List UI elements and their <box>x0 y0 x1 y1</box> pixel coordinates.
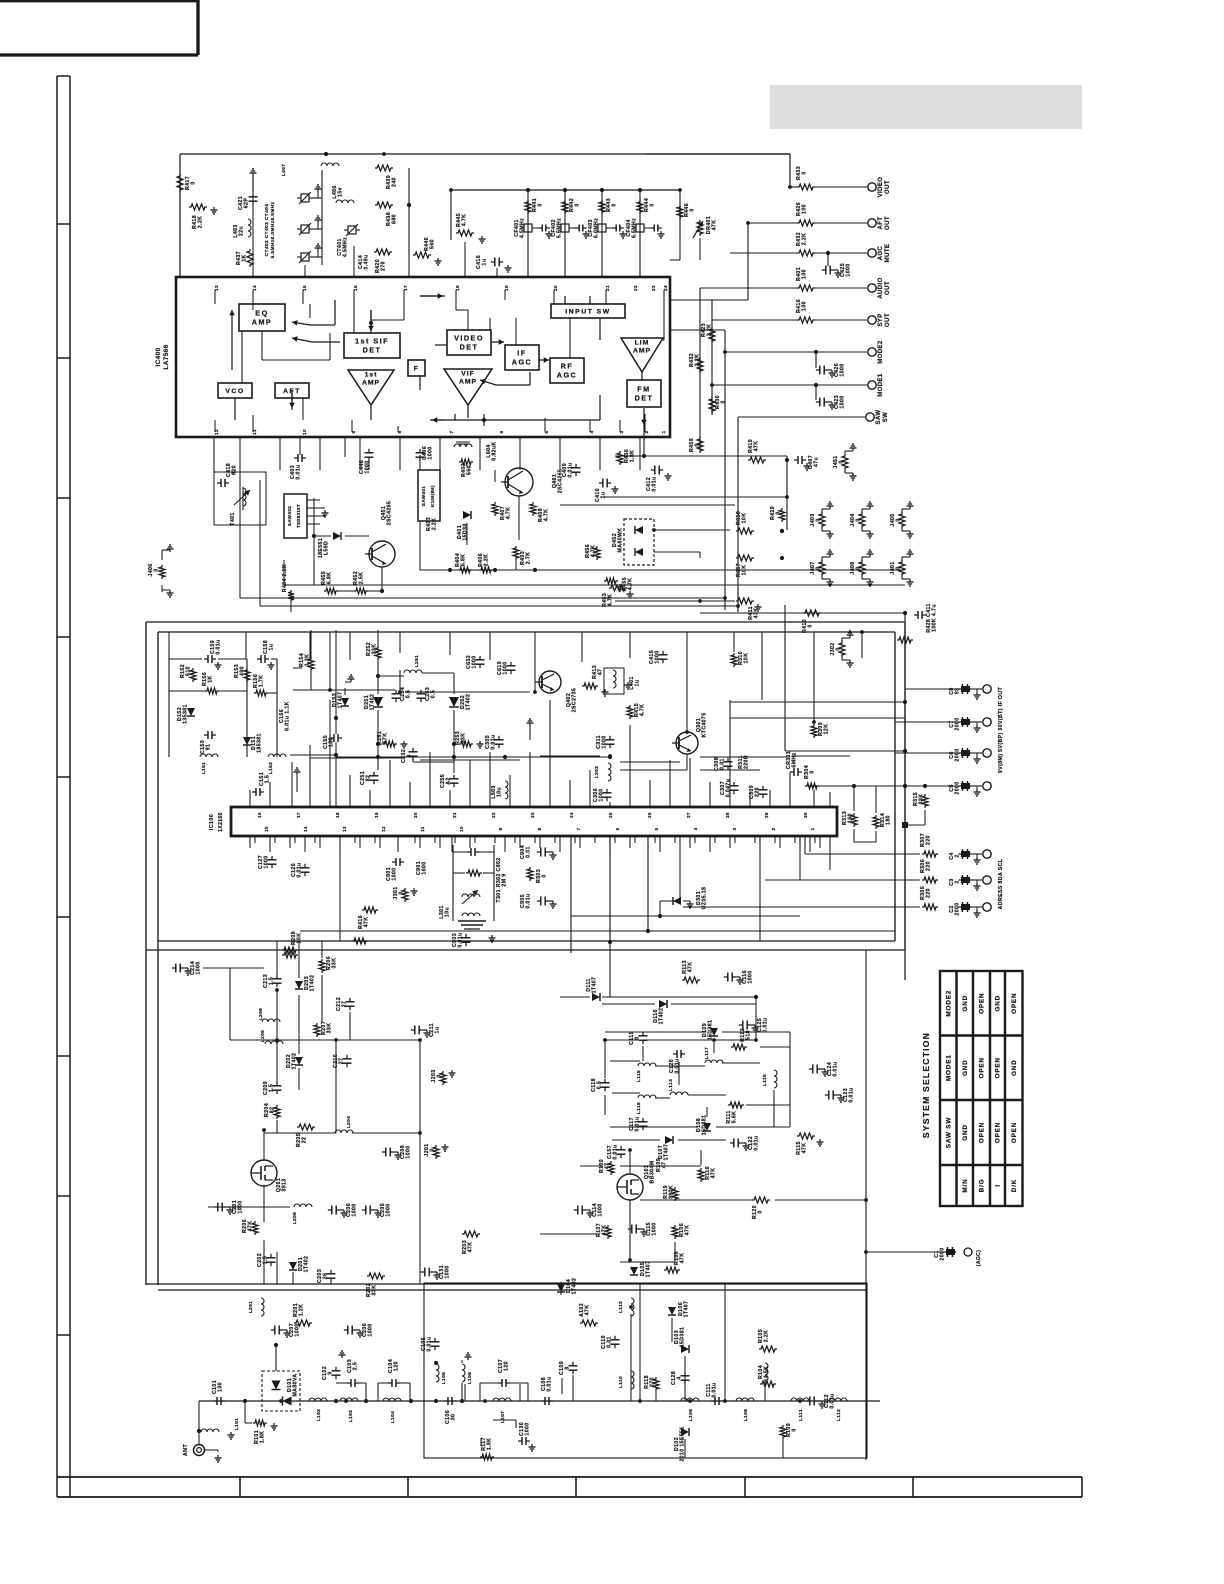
svg-text:SYSTEM SELECTION: SYSTEM SELECTION <box>921 1032 931 1138</box>
svg-text:0.01u: 0.01u <box>458 932 464 947</box>
svg-text:0: 0 <box>635 1036 641 1039</box>
svg-text:0: 0 <box>154 568 160 571</box>
svg-text:91: 91 <box>206 744 212 751</box>
svg-text:DET: DET <box>460 343 479 352</box>
svg-text:1000: 1000 <box>368 1323 374 1336</box>
svg-text:0: 0 <box>776 511 782 514</box>
svg-text:47K: 47K <box>680 1253 686 1264</box>
svg-text:4.7K: 4.7K <box>506 507 512 520</box>
svg-text:OUT: OUT <box>885 216 891 230</box>
svg-text:1T402: 1T402 <box>572 1278 578 1295</box>
svg-text:22: 22 <box>491 812 496 818</box>
svg-text:1: 1 <box>810 827 815 830</box>
svg-text:47K: 47K <box>364 917 370 928</box>
svg-text:L59D: L59D <box>324 541 330 555</box>
svg-text:33K: 33K <box>461 733 467 744</box>
svg-text:0.01u: 0.01u <box>754 1135 760 1150</box>
svg-text:1X2165: 1X2165 <box>218 812 224 832</box>
svg-text:L113: L113 <box>618 1301 624 1313</box>
svg-text:1T402: 1T402 <box>466 694 472 711</box>
svg-text:M/N: M/N <box>962 1178 969 1192</box>
svg-text:390K: 390K <box>669 1185 675 1199</box>
svg-text:1.7K: 1.7K <box>259 675 265 688</box>
svg-text:1.5: 1.5 <box>269 1084 275 1092</box>
svg-text:0: 0 <box>430 1148 436 1151</box>
svg-text:490: 490 <box>240 666 246 676</box>
svg-text:220: 220 <box>755 787 761 797</box>
svg-text:AGC: AGC <box>878 245 884 260</box>
svg-text:1T402: 1T402 <box>304 1256 310 1273</box>
svg-text:SAW SW: SAW SW <box>945 1117 952 1149</box>
svg-text:L103: L103 <box>348 1410 354 1423</box>
svg-text:AUDIO: AUDIO <box>878 277 884 298</box>
svg-text:27: 27 <box>339 1058 345 1065</box>
svg-text:25: 25 <box>608 812 613 818</box>
svg-text:10K: 10K <box>742 513 748 524</box>
svg-text:GND: GND <box>962 1124 969 1141</box>
svg-text:6.8K: 6.8K <box>327 572 333 585</box>
svg-text:30: 30 <box>451 1414 457 1421</box>
svg-text:1K: 1K <box>242 254 248 261</box>
svg-text:0: 0 <box>792 1428 798 1431</box>
svg-text:AMP: AMP <box>362 380 380 387</box>
svg-text:1st: 1st <box>365 372 378 379</box>
svg-text:L152: L152 <box>268 762 274 775</box>
svg-text:560: 560 <box>430 239 436 249</box>
svg-text:0.01u: 0.01u <box>296 464 302 479</box>
svg-text:2000: 2000 <box>940 1247 946 1260</box>
svg-text:680: 680 <box>392 214 398 224</box>
svg-text:220: 220 <box>926 835 932 845</box>
svg-text:13: 13 <box>342 826 347 832</box>
svg-text:12K: 12K <box>824 724 830 735</box>
svg-text:OPEN: OPEN <box>995 1057 1002 1078</box>
svg-text:L303: L303 <box>594 766 600 779</box>
svg-text:100: 100 <box>218 1382 224 1392</box>
svg-text:1st SIF: 1st SIF <box>355 337 389 346</box>
svg-text:0: 0 <box>836 647 842 650</box>
svg-text:SAW: SAW <box>876 410 882 425</box>
svg-text:24: 24 <box>569 812 574 818</box>
svg-text:0: 0 <box>695 443 701 446</box>
svg-text:47K: 47K <box>685 1225 691 1236</box>
svg-text:1000: 1000 <box>406 1145 412 1158</box>
svg-text:GND: GND <box>962 1059 969 1076</box>
svg-text:SAW401: SAW401 <box>421 486 426 507</box>
svg-text:GND: GND <box>962 995 969 1012</box>
svg-text:1u: 1u <box>635 680 641 687</box>
svg-text:0: 0 <box>896 518 902 521</box>
svg-text:33K: 33K <box>372 644 378 655</box>
svg-text:VIF: VIF <box>461 371 475 378</box>
svg-text:1000: 1000 <box>392 867 398 880</box>
svg-text:0.01u: 0.01u <box>568 462 574 477</box>
svg-text:1000: 1000 <box>846 263 852 276</box>
svg-text:0: 0 <box>575 203 581 206</box>
svg-text:OUT: OUT <box>885 180 891 194</box>
svg-text:47K: 47K <box>754 441 760 452</box>
svg-text:2.2K: 2.2K <box>432 518 438 531</box>
svg-text:T401: T401 <box>230 512 236 525</box>
svg-text:1000: 1000 <box>599 788 605 801</box>
svg-text:11: 11 <box>420 826 425 832</box>
svg-text:OPEN: OPEN <box>1011 993 1018 1014</box>
svg-text:ADRESS 8DA SCL: ADRESS 8DA SCL <box>998 858 1004 909</box>
svg-text:0.01u: 0.01u <box>216 639 222 654</box>
svg-text:OUT: OUT <box>885 281 891 295</box>
svg-text:2: 2 <box>771 827 776 830</box>
svg-text:9: 9 <box>498 827 503 830</box>
svg-text:120: 120 <box>394 1361 400 1371</box>
svg-text:L251: L251 <box>414 655 420 668</box>
svg-text:1000: 1000 <box>652 1222 658 1235</box>
svg-text:0: 0 <box>538 203 544 206</box>
svg-text:0.01u 1.1K: 0.01u 1.1K <box>285 701 291 731</box>
svg-text:33K: 33K <box>332 958 338 969</box>
svg-text:47K: 47K <box>712 220 718 231</box>
svg-text:22u: 22u <box>239 226 245 236</box>
svg-text:0.82uK: 0.82uK <box>492 441 498 460</box>
svg-text:6.8K: 6.8K <box>461 554 467 567</box>
svg-text:120: 120 <box>504 1361 510 1371</box>
svg-text:I: I <box>995 1184 1002 1187</box>
svg-text:0.047u: 0.047u <box>726 779 732 798</box>
svg-text:2.2K: 2.2K <box>198 216 204 229</box>
svg-text:0.01u: 0.01u <box>763 1017 769 1032</box>
svg-text:B/G: B/G <box>979 1179 986 1193</box>
svg-text:33K: 33K <box>327 1023 333 1034</box>
svg-text:CT402 CT403 CT404: CT402 CT403 CT404 <box>264 204 270 257</box>
svg-text:2000: 2000 <box>955 781 961 794</box>
svg-text:L112: L112 <box>836 1409 842 1421</box>
svg-text:20: 20 <box>413 812 418 818</box>
svg-text:26: 26 <box>323 1273 329 1280</box>
svg-text:L206: L206 <box>258 1008 264 1021</box>
svg-text:57K: 57K <box>383 733 389 744</box>
svg-text:10K: 10K <box>297 933 303 944</box>
svg-text:L151: L151 <box>201 762 207 775</box>
svg-text:BB304M: BB304M <box>650 1161 656 1184</box>
svg-text:0.01: 0.01 <box>720 758 726 770</box>
svg-text:180: 180 <box>886 815 892 825</box>
svg-text:1T407: 1T407 <box>684 1301 690 1318</box>
svg-text:1000: 1000 <box>196 961 202 974</box>
svg-text:29: 29 <box>764 812 769 818</box>
svg-text:0: 0 <box>856 566 862 569</box>
svg-text:1000: 1000 <box>748 970 754 983</box>
svg-text:30: 30 <box>803 812 808 818</box>
svg-text:MODE1: MODE1 <box>945 1054 952 1081</box>
svg-text:510: 510 <box>186 666 192 676</box>
svg-text:OPEN: OPEN <box>979 1122 986 1143</box>
svg-text:1.8K: 1.8K <box>260 1431 266 1444</box>
svg-text:1.5: 1.5 <box>269 977 275 985</box>
svg-text:VCO: VCO <box>225 388 244 395</box>
svg-text:1000: 1000 <box>472 655 478 668</box>
svg-text:1000: 1000 <box>598 1203 604 1216</box>
svg-text:47K: 47K <box>802 1143 808 1154</box>
svg-text:185381: 185381 <box>257 733 263 753</box>
svg-text:1000: 1000 <box>428 446 434 459</box>
svg-text:2000: 2000 <box>955 717 961 730</box>
svg-text:2SC2735: 2SC2735 <box>572 688 578 712</box>
svg-text:L201: L201 <box>248 1301 254 1314</box>
svg-text:AFT: AFT <box>878 217 884 230</box>
svg-text:0.01u: 0.01u <box>491 734 497 749</box>
svg-text:IC100: IC100 <box>209 814 215 830</box>
svg-text:0.01: 0.01 <box>607 1336 613 1348</box>
svg-text:AMP: AMP <box>633 348 651 355</box>
svg-text:L114: L114 <box>668 1079 674 1091</box>
svg-text:1.5: 1.5 <box>265 775 271 783</box>
svg-text:0.01u: 0.01u <box>613 1144 619 1159</box>
svg-text:6.5MHz: 6.5MHz <box>632 218 638 238</box>
svg-text:0: 0 <box>856 518 862 521</box>
svg-text:0.5: 0.5 <box>597 1081 603 1089</box>
svg-text:4.7K: 4.7K <box>608 594 614 607</box>
svg-text:2000: 2000 <box>955 748 961 761</box>
svg-text:A2: A2 <box>446 777 452 784</box>
svg-text:10u: 10u <box>445 907 451 917</box>
svg-text:D/K: D/K <box>1011 1179 1018 1192</box>
svg-text:21: 21 <box>452 812 457 818</box>
svg-text:4.5K: 4.5K <box>764 1366 770 1379</box>
svg-text:1000: 1000 <box>365 460 371 473</box>
svg-text:F: F <box>414 365 420 372</box>
svg-text:15D381: 15D381 <box>702 1115 708 1136</box>
svg-text:AGC: AGC <box>512 358 532 367</box>
svg-text:12: 12 <box>381 826 386 832</box>
svg-text:4.7K: 4.7K <box>640 704 646 717</box>
svg-text:23: 23 <box>530 812 535 818</box>
svg-text:K109(B6): K109(B6) <box>430 485 435 507</box>
svg-text:820: 820 <box>232 465 238 475</box>
svg-text:220: 220 <box>926 888 932 898</box>
svg-text:1600: 1600 <box>422 861 428 874</box>
svg-text:22: 22 <box>302 1137 308 1144</box>
svg-text:7: 7 <box>449 430 454 433</box>
svg-text:15D381: 15D381 <box>708 1020 714 1041</box>
svg-text:6.0MHz: 6.0MHz <box>594 218 600 238</box>
svg-text:2.2K: 2.2K <box>695 354 701 367</box>
svg-text:1u: 1u <box>269 644 275 651</box>
svg-text:15D381: 15D381 <box>680 1327 686 1348</box>
svg-text:SW: SW <box>883 412 889 422</box>
svg-text:2: 2 <box>955 880 961 883</box>
svg-text:270: 270 <box>381 261 387 271</box>
svg-text:AGC: AGC <box>557 371 577 380</box>
svg-text:17: 17 <box>296 812 301 818</box>
svg-text:1.8K: 1.8K <box>487 1438 493 1451</box>
svg-text:0: 0 <box>758 1210 764 1213</box>
svg-text:KTC4075: KTC4075 <box>702 712 708 737</box>
svg-text:1000: 1000 <box>655 650 661 663</box>
svg-text:1T407: 1T407 <box>646 1261 652 1278</box>
svg-text:47K: 47K <box>711 1168 717 1179</box>
svg-text:1000: 1000 <box>352 1203 358 1216</box>
svg-text:10K: 10K <box>744 653 750 664</box>
svg-text:MODE2: MODE2 <box>945 990 952 1017</box>
svg-text:VIDEO: VIDEO <box>454 334 484 343</box>
svg-text:L106: L106 <box>467 1372 473 1385</box>
svg-text:47: 47 <box>598 669 604 676</box>
svg-text:1u: 1u <box>482 259 488 266</box>
svg-text:1000: 1000 <box>503 661 509 674</box>
svg-text:L104: L104 <box>390 1411 396 1424</box>
svg-text:240: 240 <box>392 177 398 187</box>
svg-text:33K: 33K <box>919 794 925 805</box>
svg-text:47u: 47u <box>814 457 820 467</box>
svg-text:R454 2.2K: R454 2.2K <box>282 564 288 592</box>
svg-text:L108: L108 <box>688 1409 694 1422</box>
svg-text:0: 0 <box>816 518 822 521</box>
svg-text:2: 2 <box>955 854 961 857</box>
svg-text:4.5MHz: 4.5MHz <box>343 237 349 257</box>
svg-text:0.01u: 0.01u <box>297 862 303 877</box>
svg-text:0: 0 <box>721 400 727 403</box>
svg-text:5: 5 <box>654 827 659 830</box>
svg-text:RF: RF <box>561 362 574 371</box>
svg-text:1T407: 1T407 <box>592 977 598 994</box>
svg-text:OPEN: OPEN <box>995 1122 1002 1143</box>
svg-text:L105: L105 <box>441 1372 447 1385</box>
svg-text:L110: L110 <box>618 1376 624 1388</box>
svg-text:0: 0 <box>690 208 696 211</box>
svg-text:8: 8 <box>565 1366 571 1369</box>
svg-text:9V(8M) 5V(BP) 30V(BT) IF OUT: 9V(8M) 5V(BP) 30V(BT) IF OUT <box>998 687 1004 774</box>
svg-text:OUT: OUT <box>885 313 891 327</box>
svg-text:1T407: 1T407 <box>664 1144 670 1161</box>
svg-text:0: 0 <box>191 181 197 184</box>
svg-text:L111: L111 <box>798 1409 804 1421</box>
svg-text:82: 82 <box>366 775 372 782</box>
svg-text:23: 23 <box>651 285 656 291</box>
svg-text:0.5: 0.5 <box>431 690 437 698</box>
svg-text:7: 7 <box>576 827 581 830</box>
svg-text:22: 22 <box>633 285 638 291</box>
svg-text:AMP: AMP <box>459 379 477 386</box>
svg-text:L102: L102 <box>316 1409 322 1422</box>
svg-text:L115: L115 <box>636 1070 642 1082</box>
svg-text:15D38: 15D38 <box>463 523 469 540</box>
svg-text:560: 560 <box>467 465 473 475</box>
svg-text:1000: 1000 <box>840 363 846 376</box>
svg-text:1000: 1000 <box>445 1265 451 1278</box>
svg-text:0: 0 <box>810 770 816 773</box>
svg-text:6: 6 <box>615 827 620 830</box>
svg-text:4: 4 <box>693 827 698 830</box>
svg-text:0: 0 <box>802 171 808 174</box>
svg-text:6MHz: 6MHz <box>792 752 798 767</box>
svg-text:OPEN: OPEN <box>979 1057 986 1078</box>
svg-text:0: 0 <box>650 203 656 206</box>
svg-text:0.01u: 0.01u <box>712 1382 718 1397</box>
svg-text:SYP: SYP <box>878 313 884 326</box>
svg-text:0: 0 <box>816 566 822 569</box>
svg-text:1000: 1000 <box>386 1203 392 1216</box>
svg-text:1T402: 1T402 <box>659 1008 665 1025</box>
svg-text:47K: 47K <box>602 1225 608 1236</box>
svg-text:10: 10 <box>459 826 464 832</box>
svg-text:1T402: 1T402 <box>370 694 376 711</box>
svg-text:MA80WK: MA80WK <box>618 528 624 553</box>
svg-text:GND: GND <box>1011 1059 1018 1076</box>
svg-text:0.01u: 0.01u <box>547 1376 553 1391</box>
svg-text:10K: 10K <box>742 565 748 576</box>
svg-text:LA7566: LA7566 <box>163 344 170 369</box>
svg-text:2.2K: 2.2K <box>764 1330 770 1343</box>
svg-text:28: 28 <box>725 812 730 818</box>
svg-text:1000: 1000 <box>525 1422 531 1435</box>
svg-text:0: 0 <box>542 874 548 877</box>
svg-text:0.01u: 0.01u <box>652 476 658 491</box>
svg-text:16: 16 <box>257 812 262 818</box>
svg-text:47: 47 <box>605 1163 611 1170</box>
svg-text:5.5MHz: 5.5MHz <box>557 218 563 238</box>
svg-text:3913: 3913 <box>282 1178 288 1191</box>
svg-text:2M 9: 2M 9 <box>502 873 508 886</box>
svg-text:26: 26 <box>647 812 652 818</box>
svg-text:L205: L205 <box>292 1212 298 1225</box>
svg-text:4.5MHz: 4.5MHz <box>520 218 526 238</box>
svg-text:0: 0 <box>612 203 618 206</box>
svg-text:ANT: ANT <box>183 1444 189 1457</box>
svg-text:L117: L117 <box>704 1047 710 1059</box>
svg-text:MODE1: MODE1 <box>878 373 884 397</box>
svg-text:1T407: 1T407 <box>338 692 344 709</box>
svg-text:IC400: IC400 <box>155 347 162 366</box>
svg-text:1000: 1000 <box>602 735 608 748</box>
svg-text:OPEN: OPEN <box>979 993 986 1014</box>
svg-text:MUTE: MUTE <box>885 244 891 263</box>
svg-text:1000: 1000 <box>840 395 846 408</box>
svg-text:0.01: 0.01 <box>526 846 532 858</box>
svg-text:8: 8 <box>537 827 542 830</box>
svg-text:2.5K: 2.5K <box>359 572 365 585</box>
svg-text:135381: 135381 <box>183 704 189 724</box>
svg-text:1K: 1K <box>208 675 214 682</box>
svg-text:FM: FM <box>637 385 650 394</box>
svg-text:4.7K: 4.7K <box>544 509 550 522</box>
svg-text:5.5MHz6.0MHz6.5MHz: 5.5MHz6.0MHz6.5MHz <box>270 201 276 258</box>
svg-text:0.5: 0.5 <box>406 690 412 698</box>
svg-text:2.2K: 2.2K <box>484 554 490 567</box>
svg-text:SAW402: SAW402 <box>287 506 292 527</box>
svg-text:0: 0 <box>839 460 845 463</box>
svg-text:1T402: 1T402 <box>310 975 316 992</box>
svg-text:10u: 10u <box>497 787 503 797</box>
svg-text:L107: L107 <box>500 1411 506 1424</box>
svg-text:19: 19 <box>374 812 379 818</box>
svg-text:LIM: LIM <box>635 340 650 347</box>
svg-text:DET: DET <box>635 394 654 403</box>
svg-text:82: 82 <box>270 1107 276 1114</box>
svg-text:6: 6 <box>499 430 504 433</box>
svg-text:0.01u: 0.01u <box>526 893 532 908</box>
svg-text:0.49u: 0.49u <box>364 254 370 269</box>
svg-text:1000: 1000 <box>264 855 270 868</box>
svg-text:2.2K: 2.2K <box>802 233 808 246</box>
svg-text:2000: 2000 <box>955 902 961 915</box>
svg-text:1T402: 1T402 <box>292 1053 298 1070</box>
svg-text:L407: L407 <box>281 164 287 177</box>
svg-text:100: 100 <box>802 269 808 279</box>
svg-text:VIDEO: VIDEO <box>878 177 884 198</box>
svg-text:47K: 47K <box>585 1305 591 1316</box>
svg-text:0.01u: 0.01u <box>427 1336 433 1351</box>
svg-text:4: 4 <box>677 1376 683 1379</box>
svg-text:AMP: AMP <box>252 318 272 327</box>
